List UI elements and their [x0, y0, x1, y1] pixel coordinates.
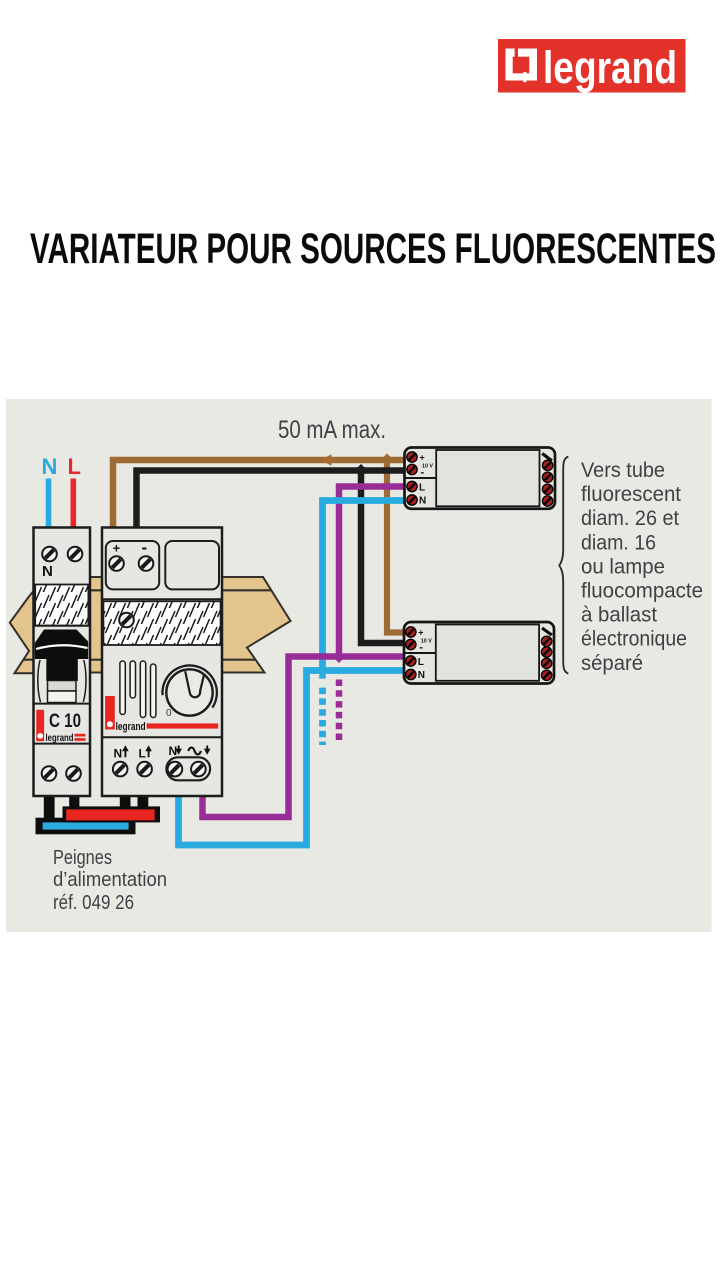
- svg-text:N: N: [418, 670, 425, 681]
- ballast 1 terminal N: [407, 495, 417, 505]
- wire black branch: junction down to ballast 2 "-": [361, 471, 405, 644]
- dimmer blank block: [165, 541, 219, 589]
- svg-text:VARIATEUR POUR SOURCES FLUORES: VARIATEUR POUR SOURCES FLUORESCENTES: [30, 225, 716, 273]
- dimmer legrand logo: [105, 696, 218, 733]
- svg-text:Vers tube: Vers tube: [581, 459, 665, 482]
- svg-text:à ballast: à ballast: [581, 604, 657, 627]
- circuit breaker Q1 (C10): [34, 528, 91, 797]
- dimmer control terminal block + / -: [106, 541, 159, 589]
- svg-text:+: +: [420, 453, 425, 463]
- svg-text:fluocompacte: fluocompacte: [581, 580, 703, 603]
- wire purple: dimmer output to ballast 2 "L": [203, 657, 405, 818]
- wire black: dimmer - terminal to ballast 1 "-": [137, 471, 405, 529]
- svg-text:N: N: [419, 496, 426, 507]
- svg-text:+: +: [418, 628, 423, 638]
- svg-text:Peignes: Peignes: [53, 847, 112, 869]
- ballast 1 terminal +: [407, 452, 417, 462]
- dimmer module U1 (Legrand fluorescent dimmer): [102, 528, 222, 797]
- svg-text:L: L: [139, 747, 146, 761]
- svg-text:électronique: électronique: [581, 628, 687, 651]
- svg-text:N: N: [169, 744, 178, 758]
- svg-text:fluorescent: fluorescent: [581, 483, 681, 506]
- wire brown: dimmer + terminal to ballast 1 "+": [113, 460, 405, 528]
- ballast 2 (electronic ballast): [404, 622, 554, 684]
- wire cyan: dimmer output to ballast 2 "N": [179, 671, 405, 846]
- brown junction: [380, 453, 393, 466]
- ballast 1 lamp terminals: [542, 454, 552, 461]
- DIN-rail arrow band: [6, 577, 295, 673]
- ballast 1 (electronic ballast): [405, 448, 556, 509]
- svg-text:N: N: [42, 563, 53, 580]
- ballast 1 terminal L: [407, 481, 417, 491]
- neutral supply comb (blue): [36, 818, 136, 835]
- breaker C 10 rating label: [34, 710, 90, 744]
- ballast 2 lamp terminals: [542, 628, 552, 635]
- svg-text:ou lampe: ou lampe: [581, 555, 665, 578]
- wire N supply (cyan) into breaker: [46, 479, 52, 528]
- annotation: peignes d'alimentation: [53, 847, 167, 914]
- brown arrowhead (current direction): [321, 454, 332, 465]
- svg-text:N: N: [114, 747, 123, 761]
- breaker label window (hatched): [35, 585, 88, 626]
- dimmer vent slots: [120, 661, 156, 718]
- svg-text:0: 0: [166, 708, 172, 719]
- ballast 2 terminal L: [406, 656, 416, 666]
- breaker top terminals: [42, 547, 57, 562]
- svg-text:L: L: [419, 483, 425, 494]
- ballast 1 terminal -: [407, 464, 417, 474]
- cyan junction: [316, 664, 329, 677]
- wire L supply (red) into breaker: [71, 479, 77, 528]
- breaker bottom terminals: [42, 766, 57, 781]
- svg-text:séparé: séparé: [581, 652, 643, 675]
- svg-text:legrand: legrand: [543, 42, 677, 93]
- ballast 2 terminal +: [406, 627, 416, 637]
- phase supply comb (red): [63, 806, 161, 822]
- svg-text:L: L: [418, 657, 424, 668]
- ballast 2 terminal N: [406, 669, 416, 679]
- comb teeth (black stubs under modules): [44, 795, 55, 825]
- wire cyan branch to ballast 1 "N": [323, 501, 405, 671]
- wire purple branch to ballast 1 "L": [339, 487, 405, 657]
- wire brown branch: junction down to ballast 2 "+": [387, 460, 405, 633]
- svg-text:N: N: [42, 454, 58, 479]
- svg-text:diam. 16: diam. 16: [581, 531, 656, 554]
- svg-text:-: -: [419, 642, 423, 654]
- legrand logo: [498, 39, 686, 93]
- svg-text:d’alimentation: d’alimentation: [53, 869, 167, 891]
- wire cyan dashed continuation: [319, 675, 326, 679]
- svg-text:-: -: [142, 538, 148, 557]
- svg-text:réf. 049 26: réf. 049 26: [53, 892, 134, 914]
- brace: [559, 457, 568, 674]
- svg-text:legrand: legrand: [46, 732, 74, 744]
- diagram panel background: [6, 399, 712, 932]
- svg-text:-: -: [421, 467, 425, 479]
- svg-text:diam. 26 et: diam. 26 et: [581, 507, 679, 530]
- wire purple dashed continuation: [336, 680, 343, 742]
- svg-text:L: L: [68, 454, 81, 479]
- purple junction: [332, 650, 345, 663]
- svg-text:+: +: [113, 541, 121, 556]
- svg-text:50 mA max.: 50 mA max.: [278, 416, 386, 444]
- dimmer knob: [162, 665, 216, 719]
- dimmer label window (hatched): [103, 601, 220, 645]
- ballast 2 terminal -: [406, 639, 416, 649]
- svg-text:C 10: C 10: [49, 711, 81, 732]
- svg-text:legrand: legrand: [116, 721, 146, 733]
- annotation: vers tube fluorescent: [581, 459, 703, 675]
- breaker toggle: [34, 626, 90, 704]
- black junction: [354, 464, 367, 477]
